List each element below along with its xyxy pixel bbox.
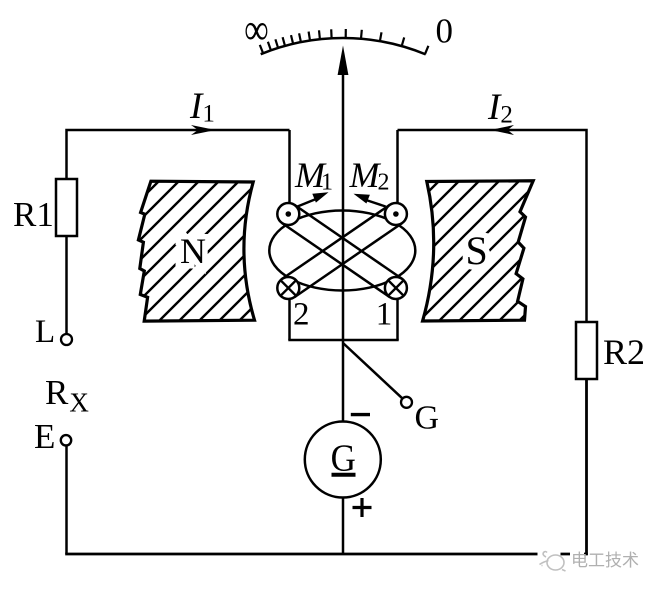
wire right vertical lower <box>585 380 588 555</box>
coil belt 2 (top-right to bottom-left) <box>282 205 390 279</box>
coil frame left vertical wire upper <box>288 130 291 209</box>
terminal E <box>61 435 71 445</box>
svg-text:M1: M1 <box>294 155 333 196</box>
current arrow I1 <box>191 125 216 135</box>
svg-text:S: S <box>466 228 488 273</box>
generator G <box>305 422 381 498</box>
svg-text:R1: R1 <box>13 195 54 234</box>
watermark background patch <box>570 549 584 559</box>
coil end dot top-left <box>277 203 299 225</box>
terminal L <box>61 334 72 345</box>
coil end dot top-right <box>385 203 407 225</box>
label plus <box>353 506 372 509</box>
svg-text:N: N <box>180 231 206 271</box>
svg-text:电工技术: 电工技术 <box>571 551 639 570</box>
scale ticks <box>260 29 429 54</box>
torque arrow M2 <box>366 200 386 207</box>
svg-text:G: G <box>331 436 356 479</box>
svg-text:R2: R2 <box>603 332 645 372</box>
wire slant to G terminal <box>343 343 403 399</box>
svg-text:1: 1 <box>376 297 393 333</box>
wire E terminal down <box>65 446 68 555</box>
svg-text:2: 2 <box>293 297 310 333</box>
resistor R2 <box>576 322 597 379</box>
watermark logo <box>540 552 566 572</box>
svg-text:0: 0 <box>436 12 454 51</box>
svg-text:RX: RX <box>45 373 89 418</box>
magnet pole N <box>138 181 254 321</box>
label minus <box>351 413 370 416</box>
terminal G <box>401 397 412 408</box>
svg-text:I2: I2 <box>487 87 513 129</box>
wire generator to bottom rail <box>342 498 345 555</box>
coil belt 1 (top-left to bottom-right) <box>282 223 390 297</box>
coil frame left vertical wire lower <box>288 293 291 340</box>
coil frame bottom bracket <box>288 339 398 342</box>
coil end cross bottom-left <box>277 277 299 299</box>
wire top-left horizontal <box>67 130 290 178</box>
svg-text:G: G <box>415 400 440 437</box>
svg-text:∞: ∞ <box>244 5 268 54</box>
current arrow I2 <box>491 125 515 135</box>
wire bottom rail <box>65 553 588 556</box>
torque arrow M1 <box>298 199 317 207</box>
moving coil ellipse <box>269 211 415 291</box>
coil end cross bottom-right <box>385 277 407 299</box>
coil frame right vertical wire upper <box>396 130 399 209</box>
svg-text:E: E <box>34 417 55 456</box>
coil frame right vertical wire lower <box>396 293 399 340</box>
wire R1 to L terminal <box>65 236 68 334</box>
scale arc <box>261 38 426 54</box>
pointer needle <box>342 68 345 422</box>
resistor R1 <box>56 179 77 236</box>
svg-text:M2: M2 <box>349 155 390 196</box>
magnet pole S <box>423 181 534 321</box>
wire right vertical upper <box>398 130 587 322</box>
svg-text:L: L <box>35 314 55 350</box>
svg-text:I1: I1 <box>189 86 215 128</box>
